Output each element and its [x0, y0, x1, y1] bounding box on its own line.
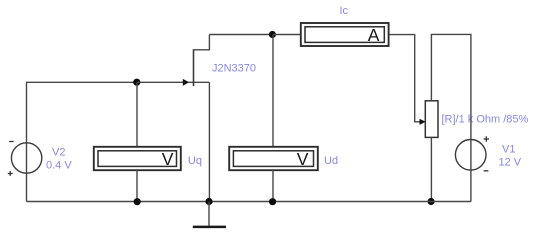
potentiometer R1 body with wiper arrow — [420, 101, 439, 138]
node: Ud/rail junction dot — [269, 198, 276, 205]
wire: Ud branch top (top junction down to voltmeter) — [272, 35, 274, 147]
svg-text:V2: V2 — [52, 147, 65, 159]
wire: Uq branch bottom (voltmeter down to rail) — [136, 170, 138, 201]
ammeter A (instrument box measuring Ic) — [301, 23, 389, 46]
wire: transistor source down to rail — [208, 82, 210, 201]
node: potentiometer/rail junction dot — [428, 198, 435, 205]
svg-text:A: A — [368, 25, 380, 45]
wire: Ud branch bottom (voltmeter down to rail) — [272, 170, 274, 201]
wire: gate run from junction to transistor gate arrow — [137, 81, 184, 83]
svg-text:V: V — [297, 149, 309, 169]
wire: bottom rail — [27, 201, 471, 203]
wire: drain run along top to Ud junction — [209, 34, 273, 36]
wire: gate horizontal run from left corner to Uq tap — [26, 81, 137, 83]
wire: potentiometer top terminal up and right, down through V1 to bottom rail — [431, 34, 471, 201]
ground symbol — [193, 202, 226, 227]
transistor Q1 J2N3370 (N-JFET: channel bar, gate arrow, drain and source leads) — [183, 35, 210, 87]
svg-text:[R]/1 k Ohm /85%: [R]/1 k Ohm /85% — [442, 113, 529, 125]
svg-text:12 V: 12 V — [499, 157, 522, 169]
wire: potentiometer bottom terminal down to rail — [430, 137, 432, 201]
voltmeter Uq (instrument box) — [94, 147, 181, 170]
voltage source V1 (circle with polarity marks) — [455, 136, 489, 171]
svg-text:V: V — [162, 149, 174, 169]
svg-text:Uq: Uq — [188, 155, 202, 167]
voltage source V2 (circle with polarity marks) — [8, 142, 42, 176]
node: drain/Ud junction dot — [269, 31, 276, 38]
node: source/ground junction dot — [205, 198, 212, 205]
wire: ammeter right terminal to potentiometer wiper (right then down then right) — [389, 35, 420, 122]
node: gate/Uq junction dot — [133, 79, 140, 86]
svg-text:J2N3370: J2N3370 — [212, 63, 256, 75]
voltmeter Ud (instrument box) — [229, 147, 318, 170]
node: Uq/rail junction dot — [134, 198, 141, 205]
wire: V2 left branch vertical (gate corner down through V2 to bottom rail) — [26, 82, 28, 201]
wire: top run from Ud junction to ammeter left terminal — [273, 34, 300, 36]
wire: Uq branch top (junction down to voltmeter) — [136, 82, 138, 147]
svg-text:V1: V1 — [502, 144, 515, 156]
svg-text:0.4 V: 0.4 V — [46, 160, 72, 172]
svg-text:Ud: Ud — [324, 155, 338, 167]
svg-text:Ic: Ic — [340, 5, 349, 17]
